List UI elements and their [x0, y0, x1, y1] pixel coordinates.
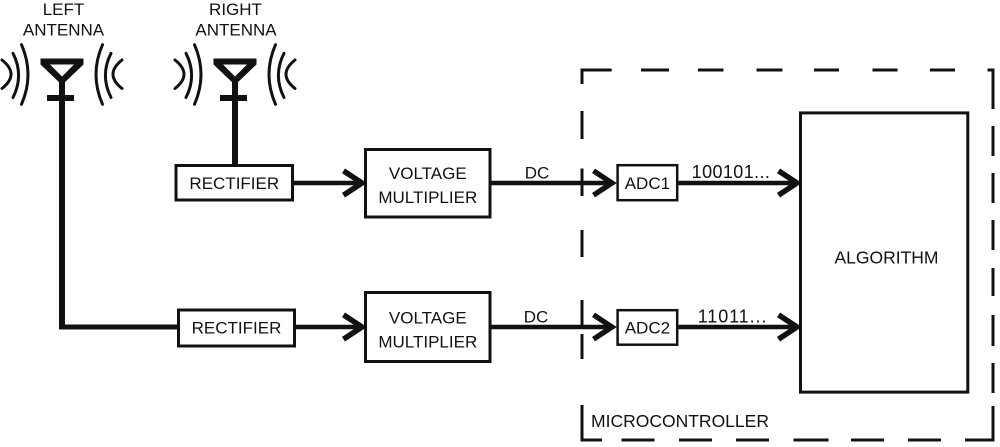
svg-text:RIGHT: RIGHT [209, 0, 262, 19]
box VOLTAGE MULTIPLIER top [366, 150, 491, 218]
dashed box MICROCONTROLLER bottom edge [582, 439, 993, 442]
svg-text:11011...: 11011... [698, 307, 768, 327]
antenna ANT2 wave arcs right [269, 45, 295, 105]
svg-text:LEFT: LEFT [43, 0, 85, 19]
wire arrow multiplier1 to ADC1 [492, 171, 613, 195]
svg-text:DC: DC [525, 163, 550, 182]
svg-text:DC: DC [524, 308, 549, 327]
svg-text:MULTIPLIER: MULTIPLIER [378, 188, 477, 207]
wire arrow multiplier2 to ADC2 [492, 315, 613, 339]
antenna ANT1 wave arcs right [96, 45, 122, 105]
box ADC2 [618, 310, 678, 345]
dashed box MICROCONTROLLER left edge [581, 69, 584, 442]
box RECTIFIER top [176, 166, 293, 201]
dashed box MICROCONTROLLER right edge [992, 69, 995, 442]
svg-text:ADC2: ADC2 [625, 319, 670, 338]
svg-text:ANTENNA: ANTENNA [23, 21, 105, 40]
wire arrow ADC1 to algorithm [678, 171, 797, 195]
svg-text:VOLTAGE: VOLTAGE [389, 164, 467, 183]
svg-text:VOLTAGE: VOLTAGE [389, 309, 467, 328]
antenna ANT2 (right) symbol [214, 59, 257, 167]
antenna ANT1 (left) symbol [41, 59, 84, 330]
box ADC1 [618, 165, 678, 200]
wire arrow rectifier2 to multiplier2 [296, 315, 362, 339]
box RECTIFIER bottom [179, 310, 295, 346]
svg-text:ANTENNA: ANTENNA [195, 21, 277, 40]
svg-text:ALGORITHM: ALGORITHM [834, 248, 938, 268]
wire left antenna feed horizontal [59, 325, 178, 330]
wire arrow ADC2 to algorithm [678, 315, 797, 339]
label RIGHT ANTENNA [195, 0, 277, 40]
svg-text:RECTIFIER: RECTIFIER [192, 319, 282, 338]
antenna ANT2 wave arcs left [175, 45, 201, 105]
box ALGORITHM [801, 113, 968, 392]
svg-text:100101...: 100101... [692, 162, 771, 182]
wire arrow rectifier1 to multiplier1 [294, 171, 362, 195]
antenna ANT1 wave arcs left [2, 45, 28, 105]
box VOLTAGE MULTIPLIER bottom [366, 293, 491, 362]
svg-text:ADC1: ADC1 [625, 174, 670, 193]
label LEFT ANTENNA [23, 0, 105, 40]
svg-text:MULTIPLIER: MULTIPLIER [378, 333, 477, 352]
dashed box MICROCONTROLLER top edge [582, 69, 993, 72]
svg-text:MICROCONTROLLER: MICROCONTROLLER [591, 411, 769, 431]
svg-text:RECTIFIER: RECTIFIER [189, 174, 279, 193]
